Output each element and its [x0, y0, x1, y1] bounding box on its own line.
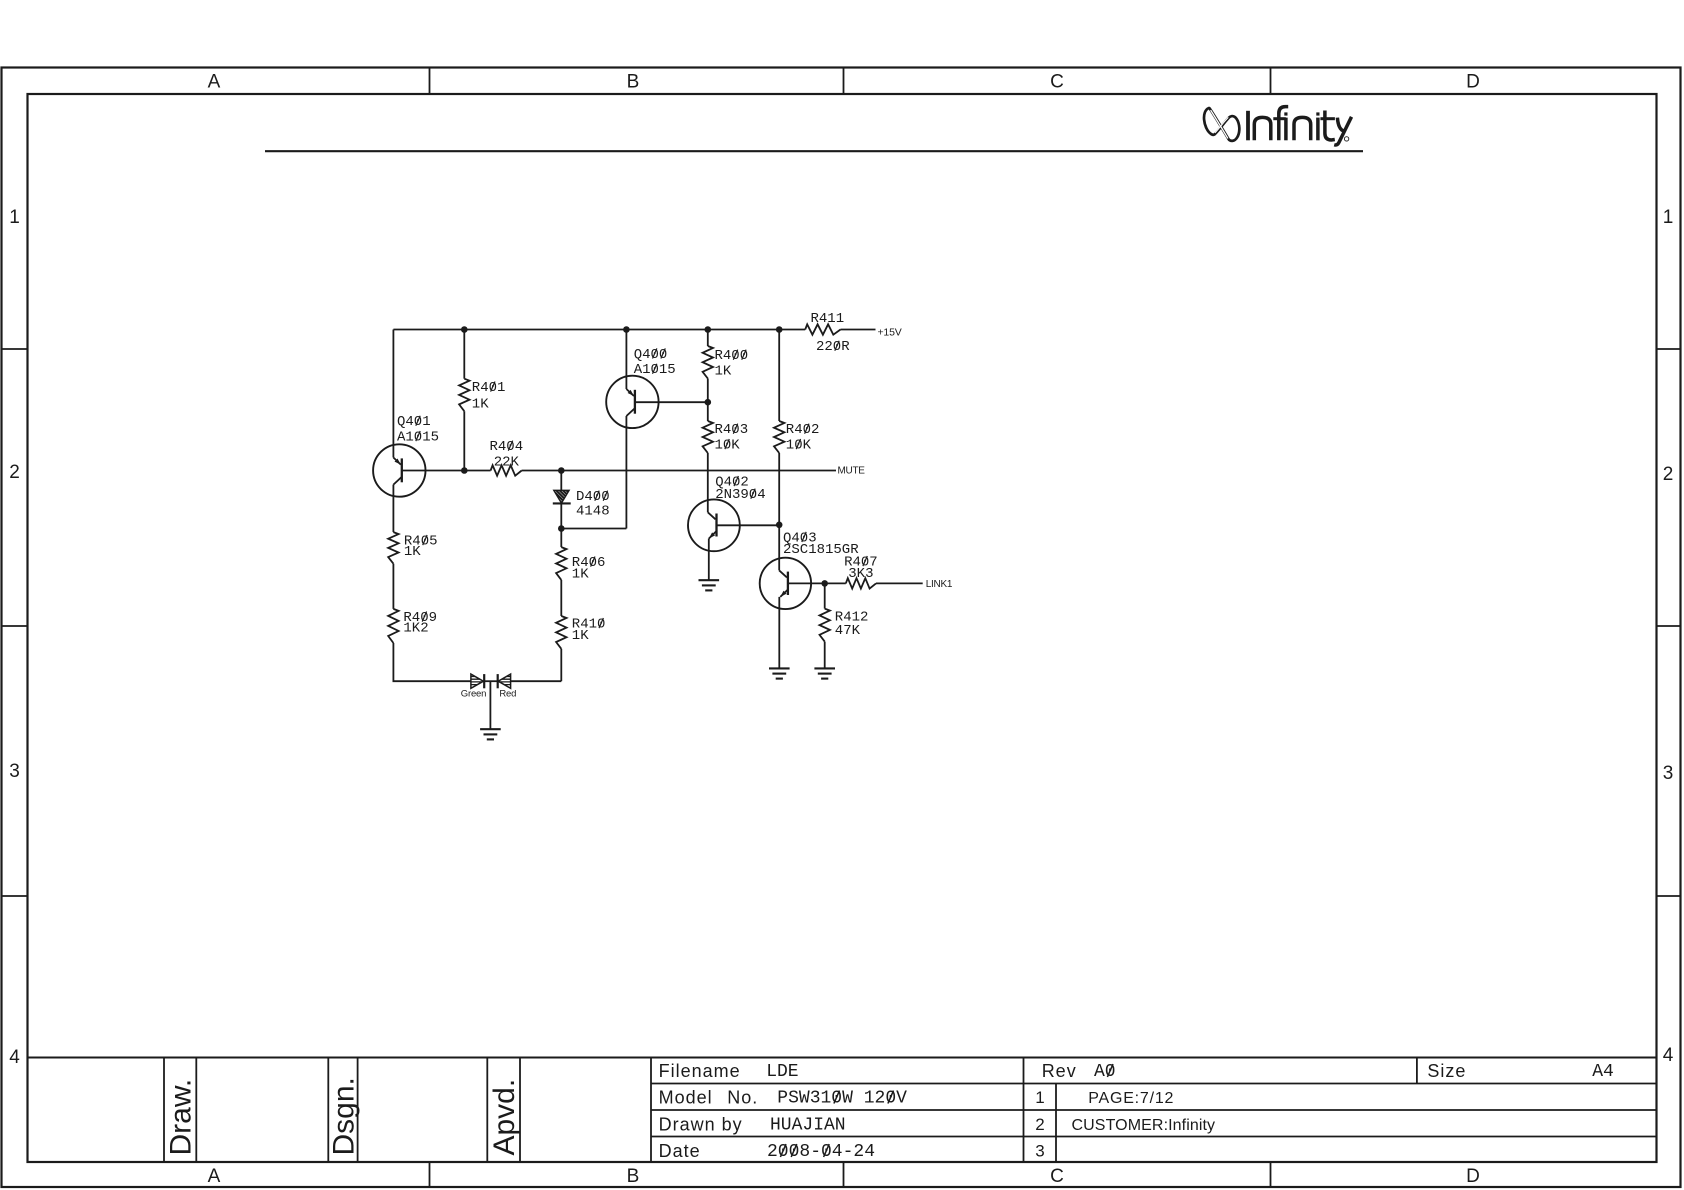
wire R410 down: [560, 649, 562, 681]
wire R405 to R409: [392, 564, 394, 609]
wire R409 to LED Green: [393, 643, 471, 681]
label R407: [844, 554, 878, 570]
value label R402 10K: [786, 437, 812, 453]
svg-text:LDE: LDE: [766, 1062, 798, 1082]
resistor R412: [820, 609, 830, 642]
wire Q401 base to node: [402, 470, 465, 472]
svg-text:R411: R411: [811, 311, 845, 327]
svg-text:1K: 1K: [572, 628, 589, 644]
wire node to R403: [707, 402, 709, 421]
wire node to D400 anode: [560, 471, 562, 491]
svg-text:CUSTOMER:Infinity: CUSTOMER:Infinity: [1072, 1117, 1216, 1134]
svg-text:R401: R401: [472, 380, 506, 396]
label R410: [572, 616, 606, 632]
svg-text:B: B: [627, 71, 640, 92]
svg-text:Green: Green: [461, 689, 486, 700]
wire R411 to +15V terminal: [841, 329, 876, 331]
label LED Green: [461, 689, 486, 700]
wire Q403 collector to node: [788, 582, 825, 584]
svg-text:D: D: [1466, 71, 1480, 92]
wire R412 to ground: [824, 642, 826, 669]
svg-text:1K2: 1K2: [403, 620, 428, 636]
svg-text:3K3: 3K3: [848, 566, 873, 582]
resistor R407: [846, 578, 876, 588]
wire Q402 collector to node: [717, 524, 780, 526]
svg-text:MUTE: MUTE: [838, 465, 866, 476]
label Q402: [715, 474, 749, 490]
wire node to R407: [825, 582, 846, 584]
wire R404 to D400 node: [522, 470, 562, 472]
svg-text:220R: 220R: [816, 339, 850, 355]
resistor R409: [388, 609, 398, 643]
svg-text:LINK1: LINK1: [926, 579, 953, 590]
svg-text:1K: 1K: [572, 567, 589, 583]
transistor Q402: [688, 499, 740, 551]
junction rail/R402-R411: [776, 326, 783, 333]
value label R406 1K: [572, 567, 589, 583]
wire node to R412: [824, 583, 826, 608]
label Q401: [397, 414, 431, 430]
ground R412: [814, 668, 835, 678]
svg-text:2: 2: [1663, 464, 1674, 485]
label R404: [489, 439, 523, 455]
wire Q400 collector down: [625, 428, 627, 528]
svg-text:1K: 1K: [715, 363, 732, 379]
svg-text:4: 4: [1663, 1045, 1674, 1066]
transistor Q401: [373, 444, 425, 497]
value label Q401 A1015: [397, 429, 439, 445]
label R411: [811, 311, 845, 327]
junction rail/R400: [705, 326, 712, 333]
wire R406 to R410: [560, 580, 562, 616]
svg-text:R403: R403: [715, 422, 749, 438]
label R409: [403, 610, 437, 626]
svg-text:D: D: [1466, 1166, 1480, 1187]
value label R409 1K2: [403, 620, 428, 636]
value label R412 47K: [835, 623, 861, 639]
value label R404 22K: [494, 454, 520, 470]
junction rail/Q400 emitter: [623, 326, 630, 333]
svg-text:A: A: [208, 71, 221, 92]
resistor R402: [774, 421, 784, 453]
wire D400 cathode to node: [560, 503, 562, 528]
wire rail to R401: [463, 330, 465, 379]
svg-text:Filename: Filename: [659, 1061, 741, 1081]
label R412: [835, 610, 869, 626]
ground Q402 emitter: [699, 580, 720, 590]
junction Q403 collector/R407/R412: [821, 580, 828, 587]
label R401: [472, 380, 506, 396]
net label MUTE: [838, 465, 866, 476]
value label R407 3K3: [848, 566, 873, 582]
wire R402 to Q402 collector node: [778, 453, 780, 525]
svg-text:Rev: Rev: [1042, 1061, 1077, 1081]
svg-text:R404: R404: [489, 439, 523, 455]
value label Q402 2N3904: [715, 487, 765, 503]
svg-text:3: 3: [1035, 1142, 1044, 1161]
value label Q403 2SC1815GR: [783, 542, 859, 558]
resistor R410: [556, 616, 566, 649]
value label R405 1K: [404, 544, 421, 560]
resistor R401: [459, 379, 469, 412]
wire rail to Q401 emitter: [392, 330, 394, 453]
svg-text:4148: 4148: [576, 503, 610, 519]
svg-text:4: 4: [9, 1047, 20, 1068]
svg-text:1: 1: [1663, 207, 1674, 228]
wire Q401 collector to R405: [392, 497, 394, 532]
wire Q400 base to node: [635, 401, 708, 403]
svg-text:B: B: [627, 1166, 640, 1187]
value label R403 10K: [715, 437, 741, 453]
wire Q402 emitter to ground: [708, 551, 710, 580]
junction Q400 base/R400/R403: [705, 399, 712, 406]
transistor Q403: [760, 558, 811, 609]
svg-text:1K: 1K: [404, 544, 421, 560]
svg-text:Draw.: Draw.: [165, 1079, 198, 1156]
svg-text:No.: No.: [727, 1088, 758, 1108]
svg-text:A4: A4: [1592, 1062, 1614, 1082]
label Q400: [634, 347, 668, 363]
resistor R406: [556, 547, 566, 580]
svg-text:C: C: [1050, 1166, 1064, 1187]
svg-text:1: 1: [1035, 1088, 1044, 1107]
wire R403 to Q402 base: [707, 453, 709, 512]
label R405: [404, 533, 438, 549]
resistor R403: [703, 421, 713, 453]
svg-text:10K: 10K: [786, 437, 812, 453]
svg-text:HUAJIAN: HUAJIAN: [770, 1116, 846, 1136]
power +15V: [878, 326, 902, 338]
wire rail to R400: [707, 330, 709, 347]
wire LED node to ground: [489, 681, 491, 729]
wire node to Q400 collector: [561, 528, 626, 530]
svg-text:47K: 47K: [835, 623, 861, 639]
value label Q400 A1015: [634, 362, 676, 378]
ground LED node: [480, 729, 501, 739]
wire +15V rail: [393, 329, 805, 331]
label R402: [786, 422, 820, 438]
wire node to R406: [560, 529, 562, 548]
junction R404/D400/MUTE: [558, 467, 565, 474]
wire rail to R402: [778, 330, 780, 422]
resistor R400: [703, 346, 713, 379]
wire node to Q403 base: [778, 525, 780, 571]
svg-text:Dsgn.: Dsgn.: [328, 1077, 361, 1155]
resistor R411: [805, 324, 840, 334]
transistor Q400: [606, 376, 658, 429]
svg-text:R402: R402: [786, 422, 820, 438]
svg-text:+15V: +15V: [878, 326, 902, 338]
svg-text:Red: Red: [499, 689, 516, 700]
svg-text:10K: 10K: [715, 437, 741, 453]
LED Green: [471, 674, 484, 688]
svg-text:2N3904: 2N3904: [715, 487, 765, 503]
label D400: [576, 489, 610, 505]
wire LED Red to R410: [511, 680, 562, 682]
svg-text:2: 2: [9, 462, 20, 483]
svg-text:2: 2: [1035, 1115, 1044, 1134]
junction D400/Q400 collector/R406: [558, 525, 565, 532]
label LED Red: [499, 689, 516, 700]
label R406: [572, 555, 606, 571]
svg-text:22K: 22K: [494, 454, 520, 470]
junction Q401 base/R401/R404: [461, 467, 468, 474]
svg-text:Q401: Q401: [397, 414, 431, 430]
LED Red: [498, 674, 511, 688]
wire rail to Q400 emitter: [625, 330, 627, 384]
label R400: [715, 348, 749, 364]
label Q403: [783, 530, 817, 546]
wire node to R404: [464, 470, 490, 472]
svg-text:PSW310W 120V: PSW310W 120V: [777, 1089, 907, 1109]
svg-text:1: 1: [9, 207, 20, 228]
svg-text:A: A: [208, 1166, 221, 1187]
svg-text:Apvd.: Apvd.: [488, 1079, 521, 1156]
wire node to MUTE: [561, 470, 836, 472]
wire R407 to LINK1: [876, 582, 923, 584]
svg-text:PAGE:7/12: PAGE:7/12: [1088, 1090, 1174, 1107]
svg-text:1K: 1K: [472, 396, 489, 412]
value label R410 1K: [572, 628, 589, 644]
wire LED cathodes node: [484, 680, 498, 682]
svg-text:C: C: [1050, 71, 1064, 92]
value label D400 4148: [576, 503, 610, 519]
svg-text:Model: Model: [659, 1088, 713, 1108]
net label LINK1: [926, 579, 953, 590]
svg-text:Size: Size: [1427, 1061, 1466, 1081]
wire R401 to Q401 base node: [463, 411, 465, 470]
value label R401 1K: [472, 396, 489, 412]
resistor R404: [491, 465, 522, 475]
resistor R405: [388, 532, 398, 564]
svg-text:Drawn by: Drawn by: [659, 1115, 743, 1135]
value label R400 1K: [715, 363, 732, 379]
junction Q402 collector/R402/Q403 base: [776, 522, 783, 529]
svg-text:3: 3: [9, 761, 20, 782]
value label R411 220R: [816, 339, 850, 355]
svg-text:Date: Date: [659, 1141, 701, 1161]
svg-text:3: 3: [1663, 763, 1674, 784]
junction rail/R401: [461, 326, 468, 333]
wire Q403 emitter to ground: [778, 609, 780, 668]
label R403: [715, 422, 749, 438]
wire R400 to node: [707, 379, 709, 403]
diode D400: [553, 490, 571, 503]
ground Q403 emitter: [769, 668, 790, 678]
